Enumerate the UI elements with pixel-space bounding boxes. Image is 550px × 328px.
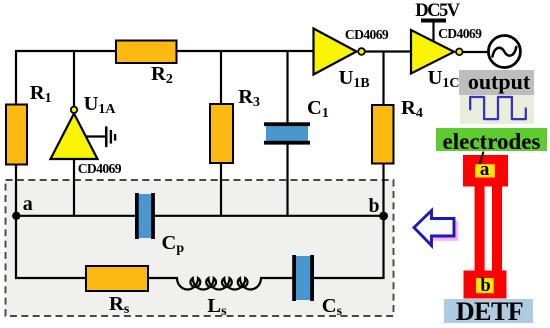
label CD4069 (U1A) <box>78 162 121 176</box>
resistor R1 <box>6 105 27 165</box>
op-amp U1C (inverter) <box>411 30 463 74</box>
wire U1C output <box>461 51 489 53</box>
capacitor Cs <box>292 255 314 301</box>
capacitor C1 <box>264 122 310 144</box>
label Cs <box>322 296 342 317</box>
DC5V supply bar <box>421 19 446 23</box>
label terminal b <box>480 277 490 296</box>
arrow shadow <box>435 222 458 240</box>
label node a <box>23 194 33 214</box>
DETF tine left <box>475 186 485 271</box>
label R4 <box>401 98 423 119</box>
terminal b yellow pad <box>476 278 494 293</box>
wire bottom branch left <box>15 277 178 279</box>
label CD4069 (U1B) <box>345 28 388 42</box>
electrodes label box <box>436 128 547 151</box>
wire R3 branch <box>220 51 222 216</box>
resistor R2 <box>116 41 177 64</box>
dashed box (resonator equivalent circuit) <box>6 180 394 316</box>
output label box <box>459 70 534 95</box>
node a <box>12 212 20 220</box>
label terminal a <box>480 160 490 179</box>
DETF electrode pad b <box>464 271 507 299</box>
wire left vertical <box>15 50 17 279</box>
label CD4069 (U1C) <box>438 27 481 41</box>
label U1B <box>339 68 370 89</box>
resistor R4 <box>372 105 394 164</box>
node b <box>379 212 388 221</box>
label C1 <box>307 98 329 119</box>
label U1C <box>428 68 460 89</box>
wire DC5V stem <box>432 21 434 42</box>
wire C1 branch <box>286 51 288 216</box>
DETF tine right <box>492 186 502 271</box>
label Cp <box>162 233 185 254</box>
AC output source symbol <box>488 36 520 68</box>
resistor R3 <box>210 104 233 163</box>
label R3 <box>238 87 260 108</box>
pointer line electrodes to a <box>480 152 484 166</box>
wire R4 branch <box>382 52 384 217</box>
label U1A <box>84 94 116 115</box>
wire bottom branch right <box>260 277 383 279</box>
label Rs <box>109 294 129 315</box>
inductor Ls <box>177 278 261 290</box>
op-amp U1A (inverter, bubble up) <box>51 107 98 159</box>
wire U1A input drop <box>73 51 75 107</box>
DETF label box <box>444 299 533 323</box>
label R1 <box>30 83 52 104</box>
op-amp U1B (inverter) <box>314 29 365 75</box>
label R2 <box>151 64 173 85</box>
DETF electrode pad a <box>463 155 508 187</box>
wire U1A output to node wire <box>73 159 75 216</box>
label Ls <box>207 296 226 317</box>
arrow (points left) <box>414 211 454 246</box>
ground <box>85 126 116 147</box>
resistor Rs <box>86 266 148 291</box>
wire top rail <box>16 50 314 52</box>
label DC5V <box>415 2 458 21</box>
wire right vertical to node b <box>382 215 384 279</box>
output waveform box <box>460 95 534 124</box>
wire U1B output <box>364 50 412 52</box>
terminal a yellow pad <box>475 164 495 177</box>
square wave trace <box>470 97 526 119</box>
label node b <box>369 197 380 217</box>
capacitor Cp <box>135 193 155 239</box>
wire node a to node b <box>16 215 384 217</box>
